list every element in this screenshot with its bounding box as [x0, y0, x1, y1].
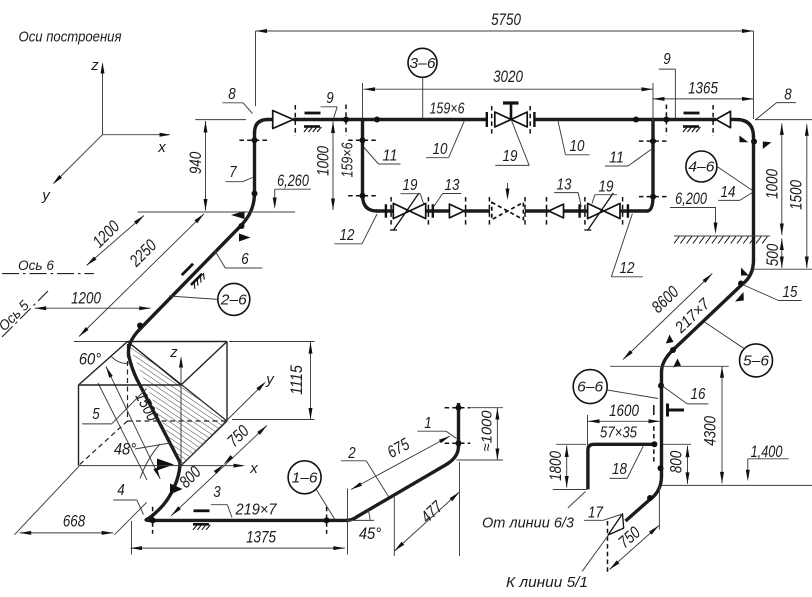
svg-text:6,260: 6,260	[277, 171, 309, 190]
svg-text:12: 12	[340, 227, 355, 244]
cube top rear edge	[128, 341, 228, 343]
flow arrow into future valve	[507, 183, 509, 196]
extension line 668 right	[115, 503, 147, 535]
svg-text:60°: 60°	[79, 350, 102, 369]
weld dot top pipe right	[633, 117, 639, 123]
joint mark pipe11R y196	[639, 196, 668, 198]
weld dot pipe6 lower	[137, 323, 143, 329]
svg-text:8: 8	[228, 86, 236, 103]
dimension 1800	[566, 446, 568, 488]
pipe 16 vertical	[660, 371, 663, 477]
axis y (construction axes)	[54, 135, 103, 183]
svg-text:19: 19	[503, 148, 518, 165]
joint mark pipe1 lower	[445, 442, 471, 444]
weld dot pipe14 lower	[738, 281, 744, 287]
svg-text:Оси построения: Оси построения	[19, 29, 122, 46]
pipe 11 left vertical 159x6	[361, 121, 364, 196]
svg-text:9: 9	[663, 51, 671, 68]
joint mark bypass x623	[622, 197, 624, 226]
svg-text:2–6: 2–6	[220, 291, 248, 308]
level line 1800 bottom	[553, 489, 587, 491]
svg-text:14: 14	[721, 184, 736, 201]
cube front left edge	[78, 385, 80, 466]
joint mark top valve left	[491, 106, 493, 135]
svg-text:11: 11	[609, 150, 624, 167]
svg-text:3: 3	[213, 484, 221, 501]
svg-text:От линии 6/3: От линии 6/3	[482, 516, 574, 532]
pipe elbow 7-6	[242, 193, 255, 225]
ground hatch 6.200	[674, 237, 679, 244]
svg-text:1375: 1375	[246, 528, 276, 547]
dimension 1000 right	[781, 123, 783, 235]
level line 5-6 section	[610, 365, 729, 367]
cube top right edge	[181, 342, 227, 386]
dimension 1500 right	[806, 124, 808, 268]
support on top pipe left	[304, 113, 321, 132]
pipe bend 3-2 (45deg)	[346, 517, 358, 521]
level line 1.400	[662, 484, 812, 486]
svg-text:1000: 1000	[763, 169, 782, 199]
cube lower right edge	[181, 421, 227, 466]
joint mark top pipe x713	[712, 105, 714, 136]
extension line 477 left	[393, 497, 395, 556]
svg-text:x: x	[157, 139, 166, 156]
support on top pipe right	[683, 113, 700, 132]
extension line 45deg	[348, 519, 374, 521]
svg-text:z: z	[90, 57, 99, 74]
pipe bend 15-16	[662, 348, 676, 372]
svg-text:8: 8	[784, 87, 792, 104]
svg-text:500: 500	[763, 243, 782, 266]
extension line 1375 left	[131, 521, 133, 555]
dimension 1115	[310, 342, 312, 419]
dimension 4300	[721, 366, 723, 483]
svg-text:159×6: 159×6	[340, 142, 357, 177]
svg-text:940: 940	[186, 151, 205, 174]
dimension 500	[781, 239, 783, 269]
joint mark pipe7 y140	[239, 139, 269, 141]
svg-text:11: 11	[383, 148, 398, 165]
svg-text:x: x	[249, 460, 258, 477]
pipe 7 vertical	[253, 132, 256, 194]
svg-text:2: 2	[347, 445, 355, 462]
level line ground 6.200	[674, 235, 770, 237]
check valve 13 right	[549, 204, 564, 218]
svg-text:6: 6	[241, 251, 249, 268]
svg-text:9: 9	[326, 90, 334, 107]
support on pipe 3	[193, 511, 210, 530]
extension line 675-1375	[347, 489, 349, 555]
svg-text:5–6: 5–6	[743, 352, 770, 369]
pipe 17 diagonal to line 5/1	[626, 499, 652, 522]
level line +500	[753, 268, 812, 270]
dimension 477	[394, 492, 459, 551]
svg-text:12: 12	[620, 260, 635, 277]
svg-text:19: 19	[599, 179, 614, 196]
flange top valve right	[533, 112, 535, 127]
weld dot pipe3 left	[150, 517, 156, 523]
level line 6.260	[138, 211, 295, 213]
weld dot pipe7 lower	[252, 191, 258, 197]
axis z (construction axes)	[102, 64, 104, 135]
pipe bend 2-1	[447, 446, 459, 464]
svg-text:≈1000: ≈1000	[479, 410, 496, 452]
svg-text:45°: 45°	[359, 524, 382, 543]
dimension 800-750 chain	[171, 426, 267, 516]
flange bypass x627	[627, 204, 629, 218]
gate valve 19 future (dashed)	[492, 202, 524, 219]
section circle 2-6	[218, 283, 250, 315]
weld dot pipe11L lower	[360, 193, 366, 199]
svg-text:10: 10	[570, 138, 585, 155]
svg-text:1: 1	[424, 415, 431, 432]
weld dot pipe11R lower	[650, 194, 656, 200]
section circle 5-6	[740, 344, 773, 377]
pipe 18 run 57x35	[588, 444, 657, 489]
cube axis z	[180, 358, 182, 466]
check valve 13 left	[449, 204, 464, 218]
svg-text:1800: 1800	[546, 451, 565, 481]
check valve 8 left	[273, 111, 294, 129]
pipe elbow 5-4 sweeping bend	[146, 460, 180, 520]
svg-text:1115: 1115	[287, 365, 306, 395]
joint mark pipe11L y140	[348, 139, 376, 141]
extension line 1800 top	[556, 443, 586, 445]
svg-text:1600: 1600	[609, 401, 639, 420]
extension line 3020 right	[652, 83, 654, 124]
svg-text:16: 16	[691, 386, 706, 403]
weld dot top pipe left-2	[374, 117, 380, 123]
dimension approx 1000	[496, 408, 498, 460]
dimension 1500 cube diagonal	[106, 367, 160, 479]
dimension 2250 diagonal	[79, 214, 204, 337]
extension line 5750 left	[255, 31, 257, 106]
joint mark top pipe x295	[294, 105, 296, 136]
svg-text:57×35: 57×35	[600, 425, 637, 442]
svg-text:800: 800	[667, 450, 686, 473]
pipe elbow right bypass	[647, 196, 653, 211]
check valve 8 right	[716, 111, 731, 127]
pipe bend 14-15	[742, 260, 754, 285]
extension line 800 top	[663, 443, 691, 445]
pipe elbow top-right	[736, 120, 754, 138]
dimension 750 diagonal	[610, 526, 659, 570]
dimension 940	[205, 121, 207, 211]
flange bypass x385.9	[385, 204, 387, 218]
extension line 3020 left	[362, 83, 364, 118]
svg-text:4–6: 4–6	[688, 159, 715, 176]
dimension 5750	[256, 30, 754, 32]
pipe 15 diagonal 217x7	[674, 284, 743, 350]
weld dot pipe11R upper	[650, 138, 656, 144]
cube top left edge	[79, 342, 128, 386]
svg-text:5: 5	[92, 406, 100, 423]
joint mark top pipe x346	[345, 105, 347, 136]
svg-text:1500: 1500	[787, 180, 806, 210]
joint mark pipe11L y196	[348, 195, 376, 197]
svg-text:18: 18	[612, 461, 627, 478]
cube front top edge	[79, 384, 182, 386]
weld dot pipe16 mid	[658, 465, 664, 471]
weld dot top pipe left	[343, 117, 349, 123]
cube hidden bottom left edge	[79, 421, 128, 466]
dimension 1000 left	[332, 122, 334, 211]
level line pipe2 bend	[457, 459, 504, 461]
extension line 668 left	[15, 466, 79, 534]
joint mark pipe1 top	[445, 407, 471, 409]
dimension 1200 upper diagonal	[87, 216, 145, 266]
pipe elbow 11-12 left	[363, 195, 378, 211]
svg-text:15: 15	[783, 284, 798, 301]
weld dot pipe15 lower	[670, 347, 676, 353]
pipe 1 vertical	[457, 403, 460, 447]
svg-text:6–6: 6–6	[577, 379, 604, 396]
flange bypass x579.6	[578, 204, 580, 218]
extension line 5750 right	[753, 31, 755, 119]
level line top right	[755, 119, 812, 121]
anchor triangles at pipe14 bend	[741, 268, 749, 276]
gate valve 19 bypass-right	[588, 203, 620, 218]
svg-text:4300: 4300	[701, 416, 720, 446]
svg-text:z: z	[169, 344, 178, 361]
svg-text:48°: 48°	[114, 440, 137, 459]
weld dot pipe16 upper	[658, 383, 664, 389]
extension line 940 top	[195, 119, 246, 121]
dimension 675	[351, 436, 450, 490]
svg-text:3020: 3020	[493, 67, 523, 86]
weld dot pipe16 curve	[647, 495, 653, 501]
svg-text:К линии 5/1: К линии 5/1	[506, 575, 588, 591]
pipe bend at cube corner and space diagonal (pipe 5)	[128, 330, 179, 463]
pipe 12 lower bypass run	[376, 209, 648, 212]
anchor T mark at pipe16	[666, 404, 669, 417]
dimension 1200 horizontal	[35, 307, 151, 309]
section circle 3-6	[408, 48, 437, 77]
joint mark pipe16 lower	[653, 405, 655, 415]
weld dot top pipe right-2	[663, 117, 669, 123]
dimension 3020	[364, 88, 654, 90]
pipe 3 bottom run	[148, 519, 347, 522]
weld dot pipe18 end	[651, 441, 657, 447]
svg-text:13: 13	[557, 177, 572, 194]
weld dot pipe14 upper	[751, 139, 757, 145]
dimension 800 lower	[687, 446, 689, 484]
svg-text:1000: 1000	[314, 146, 333, 176]
dimension 1365	[653, 98, 754, 100]
svg-text:6,200: 6,200	[675, 189, 707, 208]
svg-text:4: 4	[117, 482, 125, 499]
joint mark pipe17 end	[607, 521, 609, 575]
dimension 8600	[623, 274, 712, 360]
cube axis y	[181, 384, 264, 466]
svg-text:17: 17	[588, 505, 604, 522]
extension line cube top left	[74, 341, 128, 343]
svg-text:Ось 6: Ось 6	[18, 257, 54, 273]
anchor triangles at pipe5 bottom	[157, 459, 174, 471]
svg-text:1–6: 1–6	[292, 469, 319, 486]
svg-text:159×6: 159×6	[430, 101, 465, 118]
pipe top run (line 10)	[267, 118, 736, 121]
svg-text:10: 10	[433, 141, 448, 158]
anchor triangles at pipe7 bend	[231, 211, 245, 219]
cube hidden rear left edge	[127, 344, 129, 421]
svg-text:5750: 5750	[491, 10, 521, 29]
pipe 2 diagonal	[357, 464, 449, 518]
level line x-axis cube	[79, 465, 244, 467]
joint mark bypass x489	[488, 197, 490, 226]
svg-text:1,400: 1,400	[751, 442, 783, 461]
svg-text:668: 668	[63, 512, 86, 531]
section circle 4-6	[686, 151, 717, 182]
svg-text:1365: 1365	[688, 79, 718, 98]
dimension 1375	[131, 547, 345, 549]
extension line 750 right-lower	[658, 486, 660, 529]
svg-text:1200: 1200	[71, 289, 101, 308]
joint mark bypass x584.9	[584, 197, 586, 226]
pipe elbow top-left	[255, 120, 269, 134]
flange top valve left	[486, 112, 488, 127]
anchor triangles at pipe14	[739, 136, 748, 143]
svg-text:3–6: 3–6	[410, 55, 437, 72]
weld dot pipe3 right	[324, 517, 330, 523]
weld dot pipe1 lower	[456, 440, 462, 446]
pipe bend 16 lower	[650, 476, 662, 500]
support on pipe 6	[181, 263, 207, 289]
weld dot pipe7 upper	[252, 137, 258, 143]
anchor triangles on pipe 15	[666, 335, 674, 344]
joint mark pipe18 end	[653, 426, 655, 462]
cube hidden rear bottom edge	[128, 420, 228, 422]
joint mark bypass x525	[524, 197, 526, 226]
cube rear right edge	[226, 342, 228, 422]
section circle 6-6	[573, 370, 607, 404]
joint mark top valve right	[529, 106, 531, 135]
cube top face diagonal	[128, 342, 182, 386]
weld dot pipe1 top	[456, 405, 462, 411]
joint mark pipe11R y141	[639, 140, 668, 142]
joint mark bypass x391	[390, 197, 392, 226]
gate valve 19 top	[495, 112, 527, 127]
gate valve 19 bypass-left	[393, 203, 425, 218]
cube rear face diagonal	[128, 342, 228, 422]
svg-text:19: 19	[403, 177, 418, 194]
flange bypass x432.8	[432, 204, 434, 218]
weld dot pipe6	[239, 223, 245, 229]
svg-text:219×7: 219×7	[235, 502, 278, 519]
pipe 6 diagonal	[139, 224, 244, 331]
extension line 1600 left	[587, 415, 589, 445]
joint mark top pipe x666	[665, 105, 667, 136]
extension line 477 right	[459, 462, 461, 556]
joint mark bypass x428	[427, 197, 429, 226]
svg-text:7: 7	[229, 164, 237, 181]
axis x (construction axes)	[103, 134, 170, 136]
dimension 1600	[588, 420, 660, 422]
joint mark pipe3 right	[326, 507, 328, 534]
pipe 14 vertical	[752, 136, 755, 261]
joint mark bypass x546.5	[546, 197, 548, 226]
joint mark pipe3 left	[152, 507, 154, 534]
svg-text:13: 13	[445, 177, 460, 194]
weld dot pipe11L upper	[360, 137, 366, 143]
reducer symbol 17 on pipe	[608, 514, 624, 535]
section circle 1-6	[288, 461, 321, 494]
dimension 668	[20, 532, 114, 534]
pipe 11 right vertical	[651, 121, 654, 197]
joint mark bypass x465.6	[465, 197, 467, 226]
